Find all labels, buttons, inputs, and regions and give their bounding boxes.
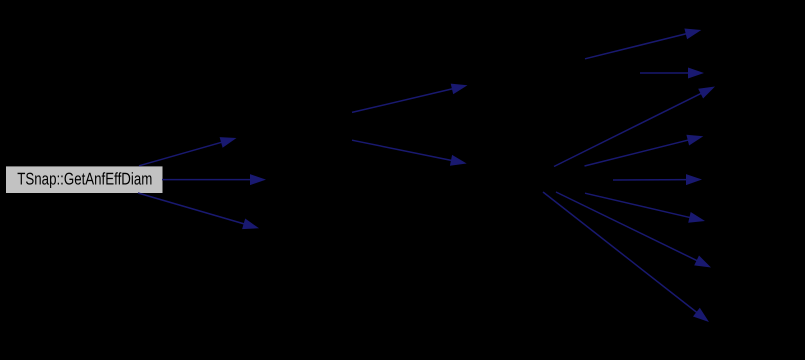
svg-text:TSnap::GetAnfEffDiam: TSnap::GetAnfEffDiam (17, 170, 152, 189)
